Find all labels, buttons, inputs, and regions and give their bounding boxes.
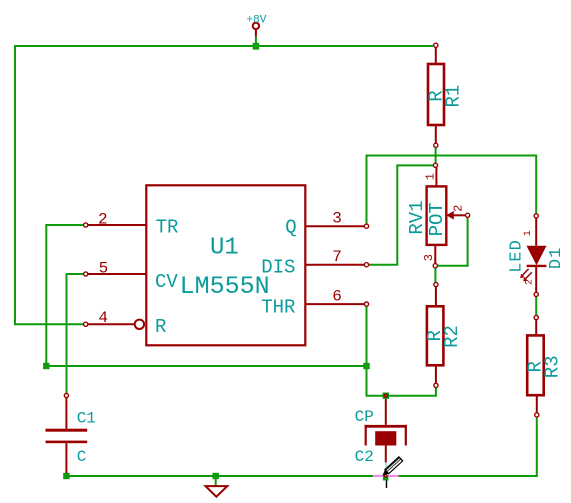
svg-text:6: 6 xyxy=(332,287,342,305)
svg-text:2: 2 xyxy=(98,210,108,228)
svg-text:1: 1 xyxy=(523,230,534,236)
svg-text:LED: LED xyxy=(508,239,527,273)
svg-text:TR: TR xyxy=(156,217,179,239)
svg-text:D1: D1 xyxy=(547,247,566,269)
svg-text:R1: R1 xyxy=(443,85,465,108)
svg-text:2: 2 xyxy=(451,205,465,212)
svg-text:C1: C1 xyxy=(77,409,96,427)
svg-text:5: 5 xyxy=(99,259,109,277)
svg-text:CV: CV xyxy=(155,271,178,293)
svg-text:RV1: RV1 xyxy=(406,200,428,234)
svg-text:C2: C2 xyxy=(355,448,374,466)
svg-text:1: 1 xyxy=(424,173,438,180)
svg-text:3: 3 xyxy=(422,254,436,261)
svg-text:4: 4 xyxy=(98,309,108,327)
svg-text:POT: POT xyxy=(426,202,448,236)
svg-text:R3: R3 xyxy=(542,355,564,378)
svg-text:7: 7 xyxy=(332,248,342,266)
svg-text:Q: Q xyxy=(285,217,296,239)
svg-text:R2: R2 xyxy=(441,325,463,348)
svg-text:LM555N: LM555N xyxy=(180,272,270,301)
svg-text:+8V: +8V xyxy=(247,14,267,26)
svg-text:R: R xyxy=(155,316,166,338)
svg-text:CP: CP xyxy=(355,408,374,426)
svg-text:C: C xyxy=(77,448,87,466)
svg-text:U1: U1 xyxy=(210,234,239,261)
svg-text:3: 3 xyxy=(332,209,342,227)
svg-text:2: 2 xyxy=(525,279,536,285)
